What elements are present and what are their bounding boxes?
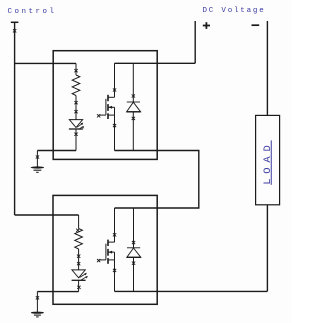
label LOAD: [263, 140, 274, 189]
diode D4 triangle: [127, 248, 141, 257]
load box: [256, 115, 280, 204]
wire control to box1 resistor: [15, 62, 76, 64]
wire ground2 horizontal: [37, 291, 78, 293]
plus sign: [203, 22, 210, 29]
x mark D2 bottom: [132, 117, 135, 120]
wire ground1 drop: [36, 151, 38, 167]
diode D2 bottom wire: [132, 112, 134, 151]
label DC Voltage: [203, 8, 266, 16]
x mark D4 bottom: [132, 262, 135, 265]
MOSFET Q2 drain wire: [114, 208, 116, 242]
diode D4 base emphasis: [127, 256, 141, 258]
diode D2 top wire: [132, 63, 134, 102]
x mark resistor1 top: [74, 69, 77, 72]
MOSFET Q1 drain wire: [114, 63, 116, 97]
x mark control: [13, 29, 16, 32]
x mark r1 led1 a: [74, 101, 77, 104]
wire ground1 horizontal: [37, 150, 76, 152]
x mark ground1: [36, 155, 39, 158]
wire DC plus vertical: [194, 21, 196, 63]
x mark r2 led2 a: [77, 255, 80, 258]
label Control: [8, 9, 57, 17]
diode D4 bottom wire: [133, 257, 135, 291]
wire led1 to ground run: [75, 129, 77, 151]
wire bottom output to load: [115, 290, 268, 292]
LED D3 triangle: [72, 270, 85, 278]
MOSFET Q1 source wire: [114, 115, 116, 150]
wire resistor1 lead: [75, 63, 77, 75]
x mark r2 led2 b: [77, 262, 80, 265]
minus sign: [252, 24, 260, 26]
wire control to box2 resistor: [15, 214, 79, 216]
LED D1 cathode bar: [69, 128, 83, 130]
x mark Q1 source: [113, 124, 116, 127]
x mark Q2 drain: [113, 233, 116, 236]
MOSFET Q2 source wire: [114, 260, 116, 292]
resistor R1: [72, 75, 80, 96]
diode D2 triangle: [127, 102, 141, 112]
wire resistor1 to led1: [75, 96, 77, 120]
diode D4 top wire: [133, 208, 135, 248]
diode D4 bar: [127, 247, 140, 249]
x mark Q2 source: [113, 269, 116, 272]
LED D1 triangle: [69, 120, 82, 128]
LED D3 cathode bar: [72, 279, 86, 281]
x mark led2 bottom: [77, 286, 80, 289]
x mark Q2 gate: [97, 259, 100, 262]
diode D2 base emphasis: [127, 111, 141, 113]
box1 SSR outline: [53, 51, 157, 160]
wire resistor2 lead: [78, 215, 80, 229]
ground symbol 1: [31, 166, 44, 172]
MOSFET Q1: [99, 95, 115, 119]
x mark r1 led1 b: [74, 110, 77, 113]
wire box1 out to box2 in: [115, 151, 199, 209]
ground symbol 2: [31, 312, 44, 317]
wire control vertical: [14, 22, 16, 215]
x mark D4 top: [132, 241, 135, 244]
wire ground2 drop: [36, 292, 38, 313]
resistor R2: [75, 229, 83, 250]
diode D2 bar: [127, 101, 140, 103]
wire DC minus to load: [266, 21, 268, 115]
wire load bottom: [266, 205, 268, 292]
wire resistor2 to led2: [78, 249, 80, 270]
box2 SSR outline: [53, 195, 157, 304]
x mark resistor2 top: [76, 229, 79, 232]
LED D3 arrows: [80, 273, 88, 280]
terminal bar Control: [11, 21, 19, 23]
x mark ground2: [36, 296, 39, 299]
x mark Q1 gate: [97, 114, 100, 117]
x mark Q1 drain: [113, 88, 116, 91]
LED D1 arrows: [77, 123, 84, 130]
wire plus to inner box1 top: [115, 62, 196, 64]
x mark led1 bottom: [74, 133, 77, 136]
MOSFET Q2: [99, 240, 115, 264]
wire led2 to ground run: [78, 280, 80, 291]
x mark D2 top: [132, 94, 135, 97]
